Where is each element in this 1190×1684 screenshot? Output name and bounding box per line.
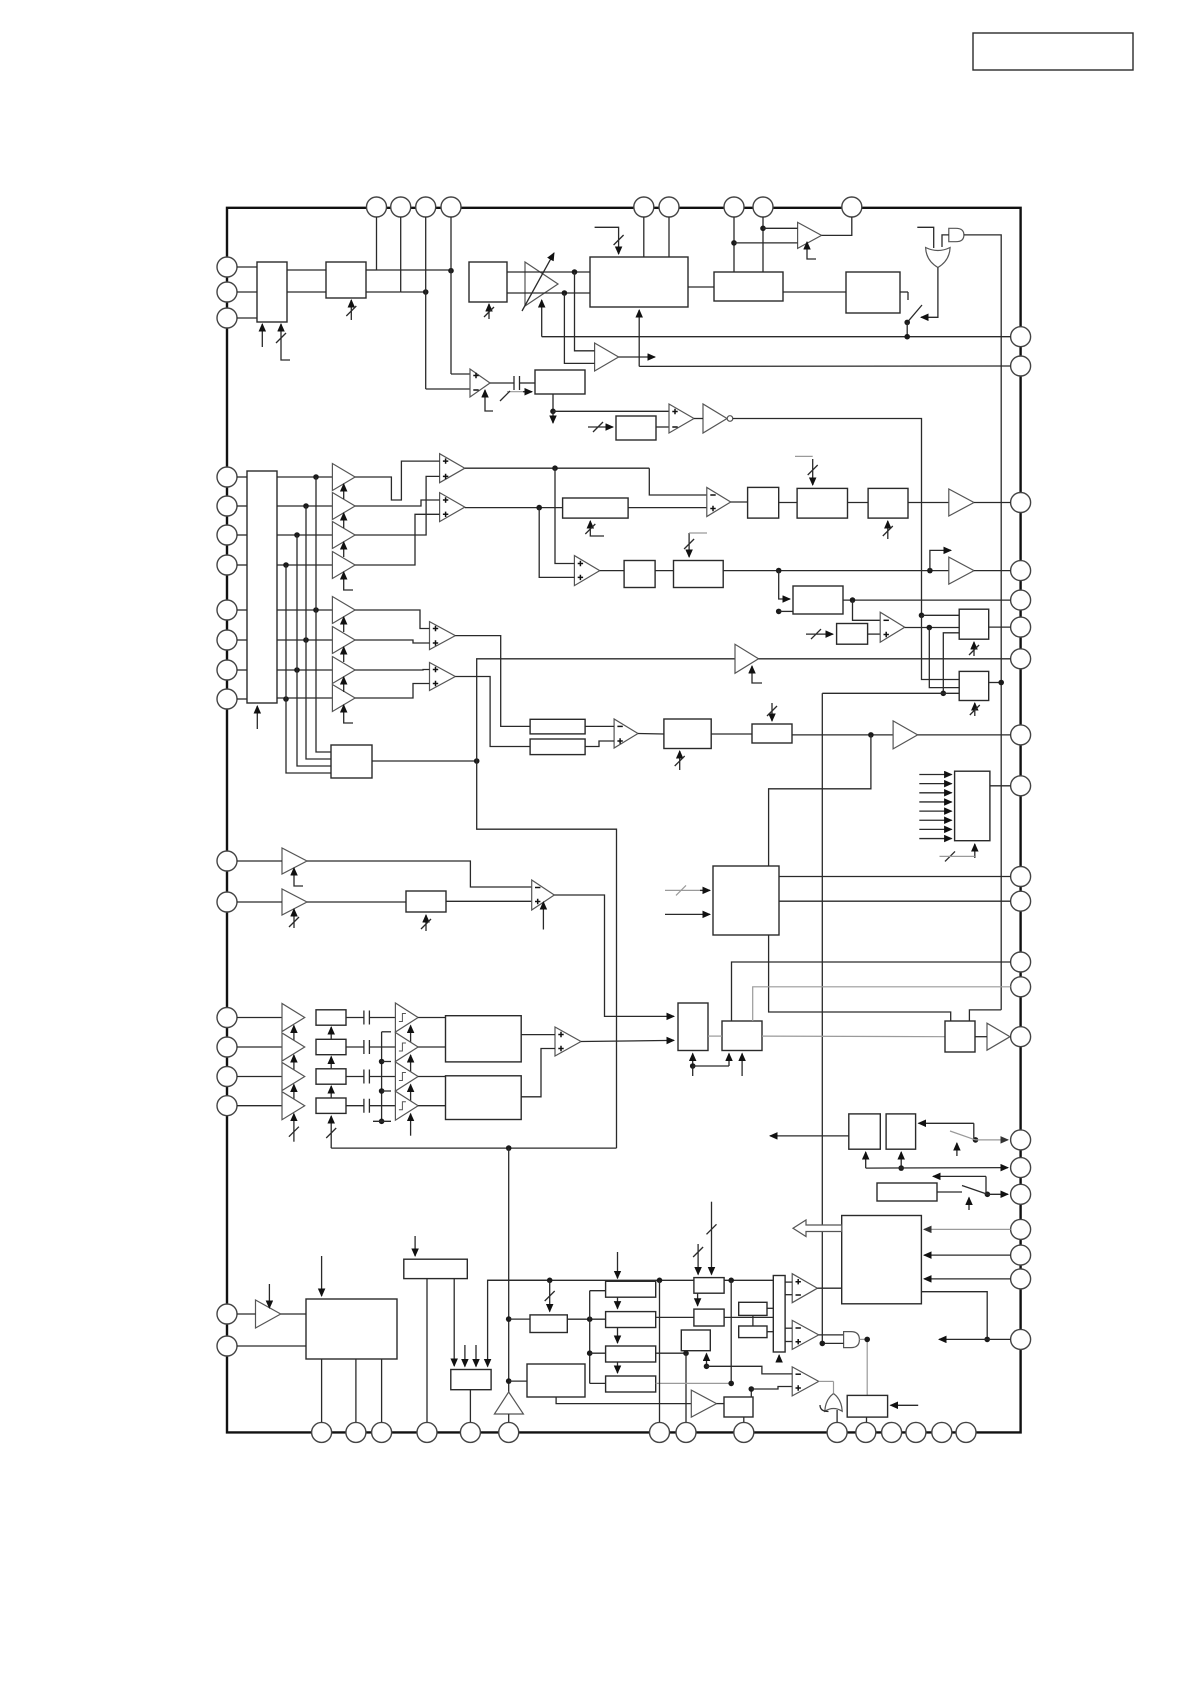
wire n26 to pin R17 xyxy=(987,1193,1008,1195)
stub arrow into B39 b xyxy=(475,1345,477,1367)
comparator U9 xyxy=(707,488,731,517)
arrow T1-T2 xyxy=(697,1293,699,1306)
wire A1 out arrow xyxy=(619,356,655,358)
wire B29 to U14 xyxy=(521,1034,555,1036)
pin R18 (right) xyxy=(1011,1219,1031,1239)
pin L1 (left) xyxy=(217,257,237,277)
wire B37 to pin B1 xyxy=(321,1359,323,1422)
wire U1s out xyxy=(767,1307,773,1309)
wire pin T6 to B6 xyxy=(668,217,670,257)
wire U1 out xyxy=(490,382,514,384)
capacitor C3 xyxy=(364,1040,370,1054)
wire long y1282 xyxy=(488,1279,694,1281)
wire n21 bus down xyxy=(508,1148,510,1392)
pin R10 (right) xyxy=(1011,867,1031,887)
junction n17 xyxy=(919,613,925,619)
pin B3 (bottom) xyxy=(372,1422,392,1442)
buffer A14 xyxy=(893,721,918,749)
pin T4 (top) xyxy=(441,197,461,217)
pin R19 (right) xyxy=(1011,1245,1031,1265)
junction n32 xyxy=(683,1350,689,1356)
junction n35 xyxy=(749,1386,755,1392)
arrow left from n27 xyxy=(939,1338,987,1340)
gain arrow A4 xyxy=(343,513,345,528)
or-gate G4 xyxy=(825,1394,842,1412)
wire pin to B9 row1 xyxy=(237,476,247,478)
block B26 (atten) xyxy=(406,891,446,912)
wire U6 out xyxy=(465,507,563,509)
rect R4 xyxy=(606,1376,656,1392)
wire pin L2 to B1 xyxy=(237,291,257,293)
control arrow rect r1 xyxy=(330,1027,332,1046)
wire U13 out xyxy=(554,895,674,1016)
wire pin to A20 xyxy=(237,1105,282,1107)
arrow up into R-rect4 xyxy=(330,1116,332,1148)
wire to comparator U9 minus xyxy=(649,468,707,495)
ctl line to pin R16 xyxy=(866,1167,1008,1170)
wire corner to sw3 xyxy=(985,1176,987,1194)
wire cap to schmitt r1 xyxy=(369,1017,395,1019)
wire B37 to pin B3 xyxy=(381,1359,383,1422)
junction n28 xyxy=(547,1278,553,1284)
pin R8 (right) xyxy=(1011,725,1031,745)
pin R20 (right) xyxy=(1011,1269,1031,1289)
junction n23 xyxy=(690,1063,696,1069)
junction j-r4 xyxy=(283,562,289,568)
ctl arrow into B34 xyxy=(900,1152,902,1168)
wire B11 to U9 plus xyxy=(628,507,707,509)
block B30 (clock gen 2) xyxy=(446,1076,522,1120)
wire y366 to pin R2 xyxy=(639,365,1010,367)
pin L11 (left) xyxy=(217,689,237,709)
wire pin to B9 row5 xyxy=(237,609,247,611)
junction n36 xyxy=(728,1278,734,1284)
wire T8 to B7 xyxy=(762,217,764,272)
buffer A10 xyxy=(332,685,355,712)
G4 hook xyxy=(820,1405,829,1412)
DAC input arrow 1 xyxy=(919,774,951,776)
buffer A6 xyxy=(332,552,355,579)
wire A11 to pin R3 xyxy=(974,502,1011,504)
control arrow into B26 xyxy=(425,915,427,931)
wire B38 to pin B4 xyxy=(426,1279,428,1422)
gain arrow A19 xyxy=(293,1085,295,1103)
wire U8 out to B22 xyxy=(455,677,530,747)
junction n29 xyxy=(657,1278,663,1284)
wire pin R12 to B31b top xyxy=(732,962,1011,1021)
tap bus 4 xyxy=(286,565,331,773)
wire bus to U15a xyxy=(785,1281,792,1283)
wire B9 out row1 xyxy=(277,476,332,478)
block B25 (DAC) xyxy=(955,771,990,841)
junction n18 xyxy=(941,691,947,697)
pin T6 (top) xyxy=(659,197,679,217)
ctl arrow into B38 xyxy=(414,1236,416,1256)
junction n5 xyxy=(562,290,568,296)
junction n13 xyxy=(927,568,933,574)
pin L8 (left) xyxy=(217,600,237,620)
wire B22 to U12 xyxy=(585,741,614,747)
buffer A8 xyxy=(332,627,355,654)
wire n16 down to B20 xyxy=(929,628,959,688)
wire C1 to B4 xyxy=(520,382,535,384)
bias arrow S4 xyxy=(410,1114,412,1136)
wire y1148 left xyxy=(331,1147,616,1149)
pin R1 (right) xyxy=(1011,327,1031,347)
triangle reference TR1 xyxy=(494,1392,523,1414)
wire rect to cap r3 xyxy=(346,1076,364,1078)
clock arrow into B13 top xyxy=(812,459,814,485)
junction n14 xyxy=(776,609,782,615)
bias arrow below U1 xyxy=(485,390,493,411)
wire B27 out1 to pin R10 xyxy=(779,876,1011,878)
wire B40 out xyxy=(567,1318,605,1320)
gain arrow A8 xyxy=(343,647,345,662)
wire pin to A19 xyxy=(237,1076,282,1078)
wire B35 stub xyxy=(937,1191,962,1193)
rect R1 xyxy=(606,1281,656,1297)
junction s2 xyxy=(379,1059,385,1065)
wire n34 to B41 xyxy=(509,1380,527,1382)
open arrow out of B36 xyxy=(793,1220,842,1237)
comparator U13 xyxy=(532,880,555,910)
DAC input arrow 6 xyxy=(919,819,951,821)
bus stub R1 xyxy=(590,1290,606,1292)
junction n4 xyxy=(572,269,578,275)
wire TR1 to pin B6 xyxy=(508,1414,510,1422)
ctl arrow into B31b 2 xyxy=(741,1054,743,1077)
ctl slash stub v2 xyxy=(711,1202,713,1275)
block B24 xyxy=(752,724,792,743)
junction j-r6 xyxy=(303,637,309,643)
wire B9 out row8 xyxy=(277,697,332,699)
stub arrow up-right xyxy=(930,550,951,570)
wire pin T5 to B6 xyxy=(643,217,645,257)
switch SW3 arrow xyxy=(968,1198,970,1211)
ctl arrow into B37 top xyxy=(321,1256,323,1296)
DAC input arrow 3 xyxy=(919,792,951,794)
wire n14 to B17 xyxy=(779,610,793,612)
junction n15 xyxy=(850,597,856,603)
pin B14 (bottom) xyxy=(932,1422,952,1442)
wire A4 to U6 xyxy=(355,500,440,506)
control arrow into B5 xyxy=(588,426,613,428)
wire n24 to pin R15 xyxy=(976,1139,1009,1141)
wire U10 out xyxy=(600,570,624,572)
op-amp U8 xyxy=(430,663,456,691)
or-gate G1 xyxy=(926,248,951,268)
VGA amp U4 xyxy=(525,262,558,306)
pin L15 (left) xyxy=(217,1037,237,1057)
wire into B34 right xyxy=(919,1122,974,1124)
wire A13 to pin R7 xyxy=(759,658,1011,660)
gain arrow A6 with foot xyxy=(344,572,353,590)
arrow into R1 xyxy=(617,1252,619,1278)
wire B26 to U13 xyxy=(446,900,532,902)
rect R3 xyxy=(606,1346,656,1362)
junction n10 xyxy=(552,465,558,471)
wire B out to B32 xyxy=(762,1035,945,1038)
wire A12 to pin R4 xyxy=(974,570,1011,572)
switch SW1 xyxy=(900,291,908,293)
wire B7-B8 xyxy=(783,291,846,293)
wire U9 out xyxy=(731,501,748,503)
wire n27 to pin R21 xyxy=(987,1338,1010,1340)
wire B38 down arrow xyxy=(453,1279,455,1366)
block B6 (ADC) xyxy=(590,257,688,307)
junction n25 xyxy=(898,1165,904,1171)
bias arrow below A2 xyxy=(807,242,816,259)
buffer A1 xyxy=(595,343,619,371)
pin R13 (right) xyxy=(1011,977,1031,997)
wire n20 up to y659 xyxy=(477,659,735,761)
wire B25 to pin R9 xyxy=(990,785,1011,787)
op-amp U7 xyxy=(430,622,456,650)
junction n40 xyxy=(864,1337,870,1343)
pin T5 (top) xyxy=(634,197,654,217)
wire B27 bottom to B31 xyxy=(769,935,951,1021)
wire B32 to A21 xyxy=(975,1036,987,1038)
buffer A19 xyxy=(282,1063,305,1091)
wire B16 out xyxy=(723,570,949,572)
bias arrow S1 xyxy=(410,1026,412,1048)
junction n31 xyxy=(587,1350,593,1356)
bias bus vertical xyxy=(381,1032,383,1122)
junction s3 xyxy=(379,1088,385,1094)
buffer A3 xyxy=(332,464,355,491)
wire cap to schmitt r4 xyxy=(369,1105,395,1107)
comparator U11 xyxy=(880,612,905,642)
arrow up to VGA xyxy=(541,300,543,337)
block B11 (delay line) xyxy=(563,498,629,518)
inverter U3 xyxy=(703,404,727,433)
wire pin L3 to B1 xyxy=(237,317,257,319)
comparator U17 xyxy=(792,1367,819,1396)
wire B30 to U14 xyxy=(521,1049,555,1097)
buffer A20 xyxy=(282,1092,305,1120)
block B4 (S/H) xyxy=(535,370,585,394)
wire B10 out xyxy=(372,760,477,762)
buffer A16 xyxy=(282,889,307,915)
wire n15 to U11 minus xyxy=(853,600,881,620)
junction n27 xyxy=(984,1337,990,1343)
control arrow into B25 xyxy=(974,844,976,858)
pin L18 (left) xyxy=(217,1304,237,1324)
junction n2 xyxy=(423,289,429,295)
junction j-r8 xyxy=(283,696,289,702)
junction n22 xyxy=(868,732,874,738)
pin T8 (top) xyxy=(753,197,773,217)
pin T2 (top) xyxy=(391,197,411,217)
block B31a (divider A) xyxy=(678,1003,708,1051)
bias stub2 xyxy=(382,1061,391,1063)
junction n6 xyxy=(731,240,737,246)
block B29 (clock gen 1) xyxy=(446,1016,522,1062)
gain arrow A16 xyxy=(293,909,295,928)
pin B1 (bottom) xyxy=(312,1422,332,1442)
ctl tail xyxy=(692,1066,694,1076)
pin L3 (left) xyxy=(217,308,237,328)
pin L14 (left) xyxy=(217,1008,237,1028)
gate G2 (driver) xyxy=(949,228,964,241)
wire U7 out to B21 xyxy=(455,636,530,727)
wire pin R13 to B31b top xyxy=(753,987,1011,1021)
wire v5 to G3 xyxy=(822,1342,843,1344)
block B23 xyxy=(664,719,711,749)
junction n19 xyxy=(998,680,1004,686)
control arrow into B11 xyxy=(590,521,604,536)
control arrow c2 into B27 xyxy=(665,913,710,915)
wire cap to schmitt r2 xyxy=(369,1046,395,1048)
junction n11 xyxy=(536,505,542,511)
wire n35 to U17 plus xyxy=(751,1387,792,1390)
junction n20 xyxy=(474,758,480,764)
wire B2 to pin T1 xyxy=(366,269,377,271)
block B9 (input selector tall) xyxy=(247,471,277,703)
wire T3 arrow up xyxy=(706,1354,708,1367)
pin R12 (right) xyxy=(1011,952,1031,972)
wire S1 out xyxy=(418,1017,445,1019)
wire pin L1 to B1 xyxy=(237,266,257,268)
block B34 xyxy=(886,1114,916,1149)
pin R4 (right) xyxy=(1011,561,1031,581)
wire B19 loop to y693 xyxy=(943,633,959,694)
pin T9 (top) xyxy=(842,197,862,217)
wire pin R19 to B36 xyxy=(924,1254,1011,1256)
block T3 xyxy=(681,1330,710,1351)
rect R2 xyxy=(606,1312,656,1328)
wire A9 to U8 xyxy=(355,669,429,672)
bias arrow S3 xyxy=(410,1085,412,1107)
pin B11 (bottom) xyxy=(856,1422,876,1442)
clock arrow into B6 top xyxy=(595,227,619,254)
wire B13-B14 xyxy=(848,502,869,504)
DAC input arrow 5 xyxy=(919,810,951,812)
control arrow into B1 pin a xyxy=(261,324,263,347)
wire A14 to pin R8 xyxy=(918,734,1011,736)
block B18 xyxy=(837,624,868,645)
pin B12 (bottom) xyxy=(882,1422,902,1442)
wire bus to U16a xyxy=(785,1327,792,1329)
rect B22 (scaler2) xyxy=(530,739,585,755)
wire A3 to U5 xyxy=(355,461,440,500)
switch SW3 xyxy=(962,1186,987,1195)
ctl link to B31b xyxy=(693,1065,729,1067)
wire A16 to B26 xyxy=(307,901,406,903)
gain arrow A20 xyxy=(293,1114,295,1142)
wire n38 to U17 minus xyxy=(707,1366,793,1374)
pin L17 (left) xyxy=(217,1096,237,1116)
wire A8 to U7 xyxy=(355,640,429,643)
wire n12 down to B17 xyxy=(779,571,790,599)
wire B3 to U4/B6 upper xyxy=(507,271,590,273)
wire B9 out row4 xyxy=(277,564,332,566)
pin B4 (bottom) xyxy=(417,1422,437,1442)
junction n1 xyxy=(448,268,454,274)
gain arrow A3 xyxy=(343,484,345,499)
wire net y292 ext xyxy=(401,291,426,293)
comparator U12 xyxy=(614,719,638,748)
wire G3 out xyxy=(859,1339,867,1395)
block B12 xyxy=(748,487,779,518)
wire pin to A18 xyxy=(237,1046,282,1048)
wire U16 out xyxy=(819,1334,844,1336)
wire B19 to pin R6 xyxy=(989,626,1011,628)
junction n38 xyxy=(704,1364,710,1370)
pin R17 (right) xyxy=(1011,1184,1031,1204)
pin R9 (right) xyxy=(1011,776,1031,796)
switch SW2 arrow xyxy=(956,1143,958,1156)
wire rect to cap r2 xyxy=(346,1046,364,1048)
junction n33 xyxy=(506,1316,512,1322)
wire R4 out gray xyxy=(656,1382,732,1384)
wire B20 out to v4 xyxy=(989,682,1002,684)
buffer A9 xyxy=(332,657,355,684)
DAC input arrow 4 xyxy=(919,801,951,803)
wire B18 to U11 plus xyxy=(868,633,881,635)
ctl arrow into B31a xyxy=(692,1054,694,1067)
pin R15 (right) xyxy=(1011,1130,1031,1150)
wire bus to U15b xyxy=(785,1294,792,1296)
ctl arrow into A22 xyxy=(268,1284,270,1308)
wire pin to B9 row6 xyxy=(237,639,247,641)
block B14 xyxy=(868,488,908,518)
wire B4 tap down xyxy=(552,394,554,411)
arrow left above B35 xyxy=(933,1175,986,1177)
pin B2 (bottom) xyxy=(346,1422,366,1442)
buffer A23 xyxy=(691,1390,716,1417)
capacitor C1 xyxy=(514,376,520,390)
buffer A22 xyxy=(256,1300,281,1328)
wire pin to B9 row3 xyxy=(237,534,247,536)
wire B9 out row5 xyxy=(277,609,332,611)
pin L9 (left) xyxy=(217,630,237,650)
wire B42 to pin B9 xyxy=(743,1417,745,1422)
wire U17 out xyxy=(819,1380,834,1382)
wire pin T3 branch to op-amp xyxy=(425,217,427,389)
pin L10 (left) xyxy=(217,660,237,680)
junction s4 xyxy=(379,1119,385,1125)
wire U3 out long to right xyxy=(733,419,922,616)
bias arrow S2 xyxy=(410,1055,412,1077)
gain arrow A7 xyxy=(343,617,345,632)
buffer A21 xyxy=(987,1023,1010,1050)
block B35 xyxy=(877,1183,937,1201)
buffer A4 xyxy=(332,493,355,520)
pin L16 (left) xyxy=(217,1067,237,1087)
block B7 (decoder) xyxy=(714,272,783,301)
wire B21 to U12 xyxy=(585,725,614,727)
rect B28r4 xyxy=(316,1098,346,1113)
wire R2 out to T2 xyxy=(656,1316,694,1318)
gain arrow A17 xyxy=(293,1026,295,1044)
wire A2 to pin T9 xyxy=(822,217,852,235)
junction n24 xyxy=(973,1137,979,1143)
wire n4 to A1 xyxy=(575,272,595,351)
wire A-B link xyxy=(708,1035,722,1037)
block B36 (serial interface) xyxy=(842,1216,922,1304)
pin L4 (left) xyxy=(217,467,237,487)
block B16 xyxy=(674,561,724,588)
wire U5 out xyxy=(465,467,650,469)
wire U1s-U2s xyxy=(752,1315,754,1326)
G1 input stub xyxy=(917,227,933,248)
rect B28r1 xyxy=(316,1010,346,1025)
wire B15-B16 xyxy=(655,570,673,572)
block T1 xyxy=(694,1278,724,1294)
wire B23-B24 xyxy=(711,733,752,735)
wire B24 out xyxy=(792,734,893,736)
